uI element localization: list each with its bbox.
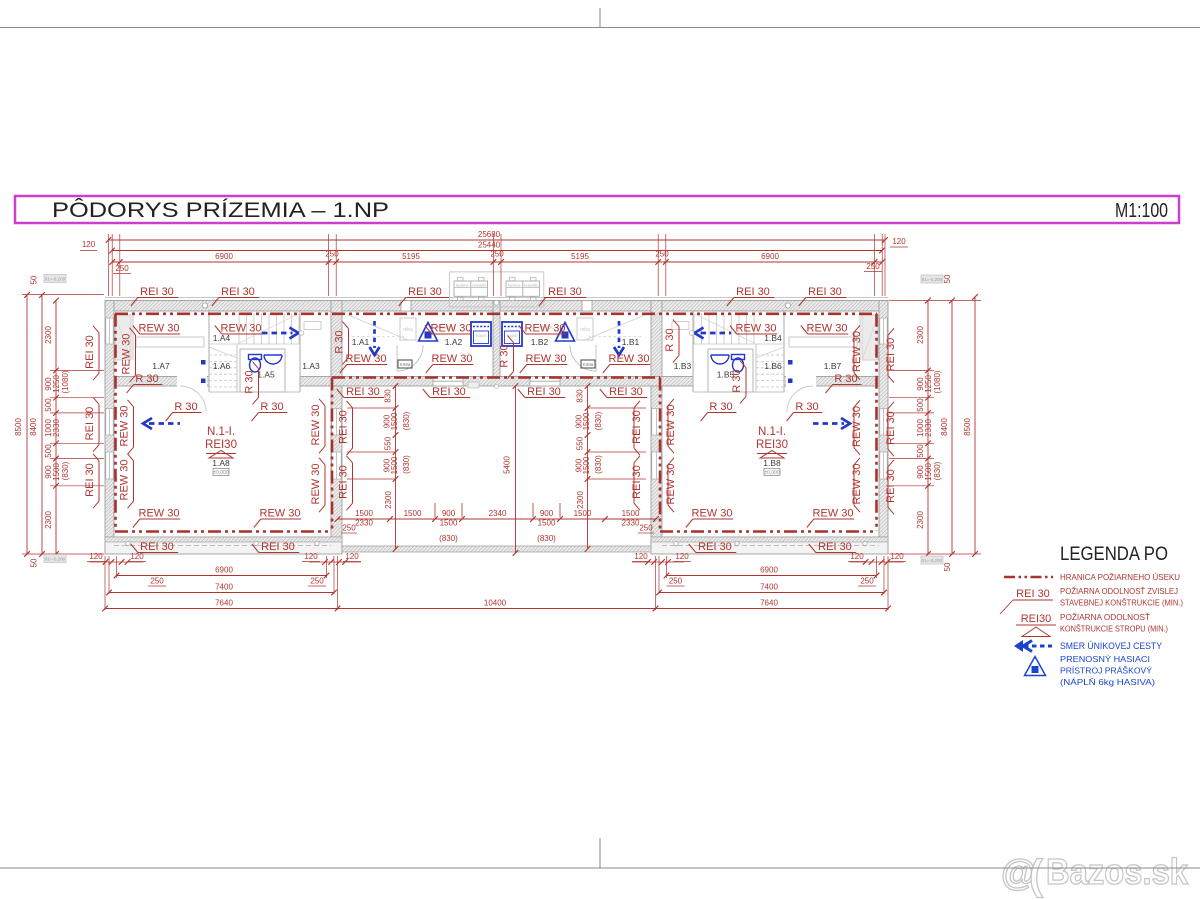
right unit bath walls: [708, 349, 753, 392]
svg-text:120: 120: [890, 552, 904, 561]
svg-text:7640: 7640: [215, 599, 233, 608]
svg-text:(830): (830): [594, 411, 603, 430]
svg-text:250: 250: [860, 577, 874, 586]
right unit appliance box: [581, 360, 595, 368]
svg-text:Bazos.sk: Bazos.sk: [1046, 851, 1189, 892]
svg-text:500: 500: [44, 444, 53, 458]
svg-text:PRENOSNÝ HASIACI: PRENOSNÝ HASIACI: [1060, 654, 1150, 664]
left unit entry door swing: [397, 345, 423, 371]
svg-text:(1080): (1080): [933, 370, 942, 393]
door gap band left: [177, 376, 207, 387]
svg-text:REW 30: REW 30: [431, 323, 472, 335]
svg-text:REW 30: REW 30: [139, 508, 180, 520]
svg-text:REI 30: REI 30: [736, 286, 770, 298]
left unit washing machine: [471, 322, 491, 346]
svg-text:1500: 1500: [52, 463, 61, 481]
svg-text:R 30: R 30: [334, 330, 346, 353]
dimension top segment chain: [112, 261, 882, 263]
svg-text:8400: 8400: [940, 418, 949, 436]
dimension left segment chain: [55, 301, 57, 555]
svg-text:(: (: [1029, 851, 1043, 898]
svg-text:POŽIARNA ODOLNOSŤ ZVISLEJ: POŽIARNA ODOLNOSŤ ZVISLEJ: [1060, 586, 1178, 596]
courtyard center dimension 5400: [515, 386, 517, 553]
svg-text:REI 30: REI 30: [631, 410, 643, 444]
svg-text:1.A4: 1.A4: [213, 333, 231, 343]
svg-text:01=-0,200: 01=-0,200: [922, 558, 943, 563]
left unit wardrobe: [115, 315, 131, 360]
svg-text:R 30: R 30: [260, 401, 283, 413]
right unit socket symbols: [788, 360, 793, 365]
escape arrow right entry down: [618, 321, 621, 348]
dimension right segment chain: [927, 301, 929, 555]
svg-text:KIMa: KIMa: [583, 362, 594, 367]
svg-text:6900: 6900: [215, 252, 233, 261]
courtyard south edge: [342, 546, 651, 552]
svg-text:250: 250: [342, 524, 356, 533]
svg-text:tepelne: tepelne: [456, 283, 468, 287]
left dimension extension lines: [22, 294, 104, 296]
party wall: [493, 301, 500, 383]
svg-text:REW 30: REW 30: [609, 353, 650, 365]
svg-text:REI30: REI30: [205, 439, 237, 451]
svg-text:REI 30: REI 30: [432, 386, 466, 398]
top-band south wall segment 3: [784, 377, 879, 387]
svg-text:REW 30: REW 30: [692, 508, 733, 520]
west wall: [105, 301, 114, 554]
svg-text:R 30: R 30: [834, 373, 857, 385]
svg-text:1500: 1500: [440, 519, 458, 528]
svg-text:REW 30: REW 30: [346, 353, 387, 365]
svg-text:REI 30: REI 30: [140, 541, 174, 553]
svg-text:REI 30: REI 30: [84, 335, 96, 369]
svg-text:1500: 1500: [582, 456, 591, 474]
svg-text:(1080): (1080): [61, 370, 70, 393]
svg-text:1500: 1500: [538, 519, 556, 528]
left unit socket symbols: [201, 360, 206, 365]
svg-text:KIMa: KIMa: [400, 362, 411, 367]
heat pump units: [449, 272, 543, 307]
svg-text:120: 120: [892, 237, 906, 246]
courtyard top small box: [468, 382, 479, 388]
svg-text:REI 30: REI 30: [338, 410, 350, 444]
svg-text:250: 250: [866, 262, 880, 271]
right unit west wall: [651, 301, 662, 554]
svg-text:5400: 5400: [503, 456, 512, 474]
svg-text:1.B6: 1.B6: [764, 361, 782, 371]
escape arrow right-unit big room: [813, 422, 844, 425]
svg-text:120: 120: [89, 552, 103, 561]
svg-text:1.A7: 1.A7: [152, 361, 170, 371]
svg-text:6900: 6900: [760, 566, 778, 575]
svg-text:1.A6: 1.A6: [213, 361, 231, 371]
dimension 25680: [109, 239, 886, 241]
svg-text:1.B3: 1.B3: [674, 361, 692, 371]
svg-text:REI 30: REI 30: [548, 286, 582, 298]
left unit extinguisher symbol: [419, 323, 438, 342]
svg-text:8400: 8400: [29, 418, 38, 436]
svg-text:50: 50: [30, 275, 39, 284]
svg-text:1500: 1500: [924, 463, 933, 481]
dimension 7640 bottom-right: [656, 608, 889, 610]
right unit staircase: [753, 313, 755, 344]
dimension 6900 bottom-right: [667, 575, 877, 577]
svg-text:1.B5: 1.B5: [717, 370, 735, 380]
east wall window: [880, 452, 887, 479]
svg-text:1250: 1250: [52, 375, 61, 393]
east wall window: [880, 318, 887, 344]
svg-text:REI 30: REI 30: [609, 386, 643, 398]
svg-text:(830): (830): [439, 534, 458, 543]
svg-text:REI 30: REI 30: [885, 411, 897, 445]
escape arrow right-unit stair: [701, 332, 732, 335]
svg-text:7640: 7640: [760, 599, 778, 608]
svg-text:250: 250: [325, 250, 339, 259]
svg-text:REW 30: REW 30: [121, 334, 133, 375]
svg-text:2300: 2300: [576, 491, 585, 509]
svg-text:250: 250: [655, 250, 669, 259]
right unit bathroom fixtures: [733, 358, 744, 372]
fold mark line bottom: [0, 867, 1200, 869]
svg-text:REW 30: REW 30: [310, 464, 322, 505]
top-band south wall segment 1: [114, 377, 209, 387]
svg-text:(830): (830): [402, 411, 411, 430]
svg-text:120: 120: [130, 552, 144, 561]
left unit south wall: [105, 537, 342, 554]
svg-text:120: 120: [675, 552, 689, 561]
svg-text:cerpadlo: cerpadlo: [524, 283, 539, 287]
svg-text:M1:100: M1:100: [1115, 200, 1168, 222]
svg-text:1500: 1500: [390, 456, 399, 474]
right unit extinguisher symbol: [556, 323, 575, 342]
top-band south wall segment 2: [300, 377, 693, 387]
window middle left: [433, 377, 463, 387]
svg-text:2300: 2300: [44, 511, 53, 529]
svg-text:REI 30: REI 30: [408, 286, 442, 298]
svg-text:120: 120: [634, 552, 648, 561]
svg-text:5195: 5195: [571, 252, 589, 261]
svg-text:2300: 2300: [916, 326, 925, 344]
svg-text:2330: 2330: [622, 519, 640, 528]
svg-text:1500: 1500: [355, 509, 373, 518]
legend escape arrow symbol: [1024, 645, 1052, 648]
svg-text:550: 550: [384, 436, 393, 450]
svg-text:PÔDORYS PRÍZEMIA – 1.NP: PÔDORYS PRÍZEMIA – 1.NP: [52, 199, 389, 222]
svg-text:10400: 10400: [484, 599, 507, 608]
left unit bath walls: [240, 349, 285, 392]
escape arrow left-unit stair: [262, 332, 293, 335]
svg-text:2300: 2300: [384, 491, 393, 509]
svg-text:830: 830: [576, 389, 585, 403]
svg-text:2330: 2330: [355, 519, 373, 528]
svg-text:HRANICA POŽIARNEHO ÚSEKU: HRANICA POŽIARNEHO ÚSEKU: [1060, 572, 1180, 582]
svg-text:REW 30: REW 30: [310, 405, 322, 446]
left unit east wall window: [332, 409, 341, 436]
svg-text:REI 30: REI 30: [221, 286, 255, 298]
fold line over watermark: [985, 867, 1200, 869]
east wall window: [880, 409, 887, 436]
svg-text:1.A1: 1.A1: [352, 337, 370, 347]
svg-text:1500: 1500: [622, 509, 640, 518]
svg-text:mba: mba: [403, 327, 413, 333]
fold mark line top: [0, 27, 1200, 29]
svg-text:250: 250: [150, 577, 164, 586]
fire boundary south left: [115, 530, 332, 533]
fire boundary right-unit west: [659, 378, 662, 532]
fire boundary left-unit east: [331, 378, 334, 532]
svg-text:REW 30: REW 30: [851, 464, 863, 505]
dimension 8400 right: [951, 301, 953, 555]
right dimension extension lines: [889, 300, 981, 302]
svg-text:5195: 5195: [402, 252, 420, 261]
svg-text:25440: 25440: [478, 241, 501, 250]
left unit east wall: [331, 301, 342, 554]
svg-text:REW 30: REW 30: [525, 323, 566, 335]
svg-text:N.1-I.: N.1-I.: [758, 426, 786, 438]
elevation marker box: [44, 275, 66, 283]
svg-text:REW 30: REW 30: [851, 406, 863, 447]
svg-text:500: 500: [44, 398, 53, 412]
svg-text:2340: 2340: [489, 509, 507, 518]
svg-text:REI 30: REI 30: [261, 541, 295, 553]
left unit interior partitions: [132, 311, 134, 360]
svg-text:01=-0,200: 01=-0,200: [45, 277, 66, 282]
legend fire boundary symbol: [1004, 576, 1053, 579]
courtyard dimension column left: [395, 386, 397, 549]
svg-text:1500: 1500: [582, 412, 591, 430]
svg-text:2330: 2330: [52, 419, 61, 437]
left unit north wall detail: [202, 303, 207, 308]
svg-text:1.A3: 1.A3: [302, 361, 320, 371]
svg-text:REW 30: REW 30: [432, 353, 473, 365]
fire boundary south right: [660, 530, 877, 533]
svg-text:(830): (830): [933, 461, 942, 480]
left unit staircase: [238, 313, 240, 344]
east wall: [879, 301, 888, 554]
svg-text:REW 30: REW 30: [813, 508, 854, 520]
svg-text:N.1-I.: N.1-I.: [207, 426, 235, 438]
dimension 7400 bottom-right: [659, 592, 884, 594]
svg-text:R 30: R 30: [664, 328, 676, 351]
left unit east wall window: [332, 452, 341, 479]
svg-text:REI 30: REI 30: [698, 541, 732, 553]
svg-text:REI 30: REI 30: [808, 286, 842, 298]
svg-text:cerpadlo: cerpadlo: [472, 283, 487, 287]
door gap band right: [786, 376, 816, 387]
svg-text:±0,000: ±0,000: [213, 470, 228, 476]
svg-text:R 30: R 30: [135, 373, 158, 385]
svg-text:25680: 25680: [478, 230, 501, 239]
svg-text:01=-0,200: 01=-0,200: [45, 557, 66, 562]
svg-text:250: 250: [310, 577, 324, 586]
svg-text:REI 30: REI 30: [84, 407, 96, 441]
fire boundary east: [875, 314, 878, 531]
svg-text:1250: 1250: [924, 375, 933, 393]
svg-text:STAVEBNEJ KONŠTRUKCIE (MIN.): STAVEBNEJ KONŠTRUKCIE (MIN.): [1060, 598, 1183, 608]
fire boundary mid (courtyard north): [332, 376, 660, 379]
svg-text:2300: 2300: [916, 511, 925, 529]
dimension 6900 bottom-left: [117, 575, 327, 577]
svg-text:900: 900: [540, 509, 554, 518]
left unit appliance box: [398, 360, 412, 368]
top dimension extension lines: [111, 234, 113, 296]
svg-text:REI 30: REI 30: [818, 541, 852, 553]
svg-text:PRÍSTROJ PRÁŠKOVÝ: PRÍSTROJ PRÁŠKOVÝ: [1060, 666, 1152, 676]
svg-text:(830): (830): [537, 534, 556, 543]
svg-text:mba: mba: [580, 327, 590, 333]
svg-text:2300: 2300: [44, 326, 53, 344]
svg-text:1.B1: 1.B1: [622, 337, 640, 347]
svg-text:SMER ÚNIKOVEJ CESTY: SMER ÚNIKOVEJ CESTY: [1060, 641, 1162, 651]
west wall window: [106, 318, 113, 344]
svg-text:250: 250: [490, 250, 504, 259]
svg-text:7400: 7400: [760, 583, 778, 592]
courtyard bottom dimension chain: [338, 518, 657, 520]
left unit hall closet: [400, 318, 416, 340]
svg-text:250: 250: [669, 577, 683, 586]
svg-text:R 30: R 30: [709, 401, 732, 413]
escape arrow left-unit big room: [149, 422, 180, 425]
svg-text:kajut: kajut: [476, 333, 486, 338]
svg-text:REW 30: REW 30: [119, 406, 131, 447]
svg-text:1.B2: 1.B2: [531, 337, 549, 347]
svg-text:LEGENDA PO: LEGENDA PO: [1060, 543, 1168, 565]
svg-text:REW 30: REW 30: [119, 460, 131, 501]
legend extinguisher symbol: [1025, 657, 1046, 676]
west wall window: [106, 409, 113, 436]
north facade wall: [105, 301, 888, 312]
right unit wardrobe: [862, 315, 878, 360]
svg-text:830: 830: [384, 389, 393, 403]
svg-text:120: 120: [850, 552, 864, 561]
right unit entry canopy lines: [585, 315, 645, 340]
svg-text:01=-0,200: 01=-0,200: [922, 277, 943, 282]
svg-text:1500: 1500: [404, 509, 422, 518]
left unit bathroom fixtures: [250, 358, 261, 372]
svg-text:REI 30: REI 30: [84, 463, 96, 497]
svg-text:1.B4: 1.B4: [764, 333, 782, 343]
right unit west wall window: [652, 452, 661, 479]
svg-text:7400: 7400: [215, 583, 233, 592]
right unit hall closet: [577, 318, 593, 340]
bottom dimension extension lines: [104, 556, 106, 610]
window middle right: [530, 377, 560, 387]
svg-text:1.A2: 1.A2: [445, 337, 463, 347]
dimension 120 clusters bottom: [90, 561, 144, 563]
escape arrow left entry down: [373, 321, 376, 348]
svg-text:1.A8: 1.A8: [212, 458, 230, 468]
svg-text:REW 30: REW 30: [851, 331, 863, 372]
svg-text:(830): (830): [402, 455, 411, 474]
svg-text:REI 30: REI 30: [338, 465, 350, 499]
svg-text:R 30: R 30: [244, 370, 256, 393]
left unit entry canopy lines: [348, 315, 408, 340]
svg-text:REI30: REI30: [756, 439, 788, 451]
svg-text:50: 50: [30, 558, 39, 567]
svg-text:1500: 1500: [574, 509, 592, 518]
door arc band right: [787, 386, 813, 412]
svg-text:(830): (830): [594, 455, 603, 474]
svg-text:2330: 2330: [924, 419, 933, 437]
svg-text:REW 30: REW 30: [260, 508, 301, 520]
svg-text:REW 30: REW 30: [526, 353, 567, 365]
door arc band left: [180, 386, 206, 412]
svg-text:(830): (830): [61, 461, 70, 480]
svg-text:900: 900: [442, 509, 456, 518]
svg-text:120: 120: [345, 552, 359, 561]
right unit south wall: [651, 537, 888, 554]
dimension 7400 bottom-left: [109, 592, 334, 594]
svg-text:250: 250: [115, 264, 129, 273]
svg-text:250: 250: [639, 524, 653, 533]
right unit south wall vents: [863, 541, 867, 545]
svg-text:REI 30: REI 30: [885, 338, 897, 372]
dimension 8400 left: [41, 295, 43, 554]
svg-text:1.B7: 1.B7: [824, 361, 842, 371]
dimension 10400 bottom-middle: [338, 608, 656, 610]
svg-text:REI 30: REI 30: [140, 286, 174, 298]
svg-text:R 30: R 30: [499, 344, 511, 367]
svg-text:REI 30: REI 30: [527, 386, 561, 398]
svg-text:REW 30: REW 30: [665, 405, 677, 446]
svg-text:REW 30: REW 30: [139, 323, 180, 335]
fire boundary west: [114, 314, 117, 531]
svg-text:(NÁPLŇ 6kg HASIVA): (NÁPLŇ 6kg HASIVA): [1060, 677, 1155, 687]
svg-text:REI 30: REI 30: [631, 465, 643, 499]
dimension 8500 left: [26, 295, 28, 554]
svg-text:REI 30: REI 30: [1016, 588, 1050, 600]
svg-text:R 30: R 30: [174, 401, 197, 413]
svg-text:120: 120: [304, 552, 318, 561]
svg-text:KONŠTRUKCIE STROPU (MIN.): KONŠTRUKCIE STROPU (MIN.): [1060, 624, 1168, 634]
elevation marker box: [921, 275, 943, 283]
svg-text:550: 550: [576, 436, 585, 450]
svg-text:1.A5: 1.A5: [257, 370, 275, 380]
svg-text:8500: 8500: [963, 418, 972, 436]
svg-text:50: 50: [943, 562, 952, 571]
right unit interior partitions: [859, 311, 861, 360]
svg-text:1500: 1500: [390, 412, 399, 430]
svg-text:6900: 6900: [761, 252, 779, 261]
right unit north wall detail: [785, 303, 790, 308]
svg-text:POŽIARNA ODOLNOSŤ: POŽIARNA ODOLNOSŤ: [1060, 612, 1150, 622]
svg-text:50: 50: [943, 274, 952, 283]
right unit washing machine: [502, 322, 522, 346]
dimension 7640 bottom-left: [105, 608, 338, 610]
elevation marker box: [44, 555, 66, 563]
svg-text:8500: 8500: [14, 418, 23, 436]
right unit west wall window: [652, 409, 661, 436]
svg-text:120: 120: [82, 240, 96, 249]
dimension 25440: [112, 250, 882, 252]
right unit entry door swing: [570, 345, 596, 371]
title bar frame: [15, 196, 1179, 223]
svg-text:500: 500: [916, 398, 925, 412]
courtyard dimension column right: [587, 386, 589, 549]
svg-text:REW 30: REW 30: [665, 464, 677, 505]
dimension 8500 right: [974, 297, 976, 554]
svg-text:REI 30: REI 30: [346, 386, 380, 398]
svg-text:6900: 6900: [215, 566, 233, 575]
svg-text:REI30: REI30: [1021, 613, 1052, 625]
svg-text:R 30: R 30: [795, 401, 818, 413]
fire boundary north: [115, 312, 877, 315]
left unit south wall vents: [126, 541, 130, 545]
elevation marker box: [921, 556, 943, 564]
svg-text:1.B8: 1.B8: [763, 458, 781, 468]
svg-text:500: 500: [916, 444, 925, 458]
svg-text:REW 30: REW 30: [807, 323, 848, 335]
svg-text:±0,000: ±0,000: [764, 470, 779, 476]
